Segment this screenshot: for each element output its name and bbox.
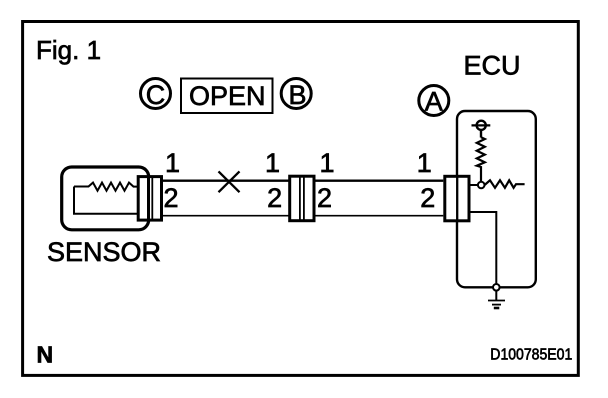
svg-text:1: 1 [265, 148, 280, 178]
svg-text:C: C [146, 80, 166, 110]
svg-text:2: 2 [317, 183, 332, 213]
svg-text:OPEN: OPEN [189, 81, 266, 111]
svg-text:2: 2 [420, 183, 435, 213]
svg-text:2: 2 [267, 183, 282, 213]
svg-text:1: 1 [165, 148, 180, 178]
svg-text:1: 1 [417, 148, 432, 178]
svg-text:B: B [288, 80, 306, 110]
svg-text:D100785E01: D100785E01 [490, 347, 572, 364]
svg-text:A: A [425, 87, 443, 117]
svg-text:ECU: ECU [464, 51, 521, 81]
svg-text:N: N [37, 342, 54, 368]
svg-text:2: 2 [164, 183, 179, 213]
svg-text:1: 1 [320, 148, 335, 178]
svg-text:Fig. 1: Fig. 1 [36, 35, 101, 65]
svg-text:SENSOR: SENSOR [47, 237, 161, 267]
